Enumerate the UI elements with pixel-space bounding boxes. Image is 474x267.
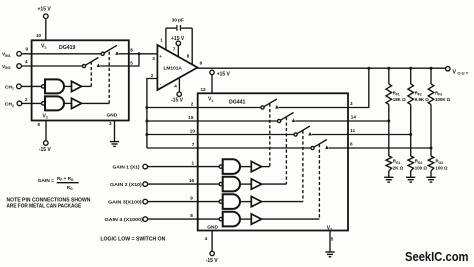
wire buffer G2 output [81,102,109,104]
node RF3 bottom [430,147,433,150]
gate G4 DG441 [219,177,261,192]
wire DG419 pin 5 up to node [129,54,139,66]
wire DG419 pin 8 to op-amp pin 3 [129,53,158,55]
svg-text:18K Ω: 18K Ω [393,97,406,102]
svg-text:5: 5 [331,237,334,242]
wire op-amp output pin 6 [198,67,446,69]
svg-text:GND: GND [207,224,218,230]
svg-text:DG441: DG441 [229,99,246,105]
wire bus row2 to switch S4 [147,120,278,122]
terminal GAIN 3 (X100) [108,195,193,205]
note text [7,197,91,209]
node junction pin8/pin5 [138,52,141,55]
power +15V supply DG419 pin 10 [36,7,51,41]
node feedback bus junction row1 [145,106,148,109]
wire dashed control S6 [318,144,320,219]
wire GAIN3 to gate G5 [148,201,220,203]
svg-text:1: 1 [160,38,163,43]
node output bus / RF3 [430,67,433,70]
wire bus row1 to switch S3 [147,107,261,109]
switch S2 in DG419 [82,58,128,68]
terminal GAIN 1 (X1) [113,160,195,170]
node output bus / RF1 [387,67,390,70]
wire op-amp pin 2 feedback [147,79,158,149]
svg-text:SeekIC.com: SeekIC.com [405,249,469,264]
node feedback bus junction row3 [145,133,148,136]
resistor RF2 9.9K [408,68,429,134]
terminal GAIN 4 (X1000) [105,213,194,223]
switch S4 in DG441 [278,113,349,123]
terminal VIN2 [2,59,28,70]
svg-text:+15 V: +15 V [217,71,231,77]
node feedback bus junction row2 [145,120,148,123]
svg-text:4: 4 [205,236,208,241]
svg-text:4: 4 [25,59,28,64]
gate G1 DG419 (inverting driver) [42,79,82,93]
svg-text:GND: GND [107,113,118,119]
resistor RF1 18K [386,68,406,121]
svg-text:LM101A: LM101A [164,66,183,72]
svg-text:30 pF: 30 pF [172,18,184,23]
wire dashed control S5 [302,131,304,202]
ground RG2 [406,177,415,182]
wire op-amp pin 8 to capacitor [191,28,193,65]
svg-text:3: 3 [350,101,353,106]
svg-text:15: 15 [188,115,194,120]
wire buffer G1 output [81,85,91,87]
ground RG1 [384,177,393,182]
svg-text:2: 2 [151,73,154,78]
svg-text:8: 8 [130,48,133,53]
svg-text:1: 1 [192,160,195,165]
wire CH2 to gate G2 [22,102,42,104]
wire DG441 pin 3 to output bus [348,68,369,107]
svg-text:-15 V: -15 V [39,147,52,153]
svg-text:3: 3 [109,121,112,126]
wire GAIN4 to gate G6 [148,218,220,220]
wire buffer G3 output to control S3 [261,166,270,168]
gate G6 DG441 [219,212,261,227]
svg-text:100K Ω: 100K Ω [435,97,451,102]
ground DG419 pin 3 [109,121,119,147]
svg-text:6: 6 [200,61,203,66]
gain formula text [38,176,79,191]
node output bus / pin3 [367,67,370,70]
svg-text:3: 3 [152,56,155,61]
capacitor C1 30pF [166,18,192,31]
svg-text:GAIN 2 (X10): GAIN 2 (X10) [110,182,142,188]
gate G3 DG441 [219,159,261,174]
switch S1 in DG419 [101,45,129,55]
switch S5 in DG441 [294,126,348,136]
wire DG441 pin 6 to RF3 [348,147,431,149]
switch S6 in DG441 [311,140,348,150]
svg-text:NOTE PIN CONNECTIONS SHOWN: NOTE PIN CONNECTIONS SHOWN [7,197,91,203]
node RF2 bottom [409,133,412,136]
svg-text:2K Ω: 2K Ω [393,165,404,170]
wire dashed control S3 [269,104,271,167]
IC U3 DG441 box [198,93,348,230]
wire DG441 pin 14 to RF1 [348,120,389,122]
wire dashed control S4 [285,117,287,184]
svg-text:9: 9 [190,195,193,200]
power -15V supply op-amp pin 4 [171,78,184,104]
power +15V supply op-amp pin 7 [171,36,185,57]
svg-text:-15 V: -15 V [171,98,184,104]
IC U1 DG419 box [32,40,129,120]
power +15V supply DG441 pin 13 [201,70,231,93]
svg-text:VOUT: VOUT [452,70,469,76]
wire GAIN1 to gate G3 [148,166,220,168]
gate G5 DG441 [219,194,261,209]
svg-text:GAIN 3(X100): GAIN 3(X100) [108,200,142,206]
wire buffer G5 output to control S5 [261,201,303,203]
svg-text:100 Ω: 100 Ω [436,165,449,170]
resistor RG3 100 [428,148,448,177]
svg-text:16: 16 [189,178,195,183]
gate G2 DG419 (inverting driver) [42,96,82,110]
terminal GAIN 2 (X10) [110,178,195,188]
switch S3 in DG441 [261,99,348,109]
svg-text:6: 6 [38,122,41,127]
ground RG3 [426,177,435,182]
svg-text:9: 9 [26,47,29,52]
svg-text:GAIN =: GAIN = [38,178,55,184]
svg-text:7: 7 [192,142,195,147]
svg-text:GAIN 1 (X1): GAIN 1 (X1) [113,165,140,171]
wire dashed control S1 [108,50,110,103]
svg-text:+: + [159,54,162,59]
svg-text:2: 2 [191,101,194,106]
node output bus / RF2 [409,67,412,70]
wire op-amp pin 1 to capacitor [165,28,167,50]
ground DG441 pin 5 [325,231,334,257]
svg-text:-15 V: -15 V [206,258,219,264]
wire dashed control S2 [90,62,92,86]
wire DG441 pin 11 to RF2 [348,134,411,136]
resistor RG1 2K [386,121,404,177]
svg-text:13: 13 [201,87,207,92]
wire buffer G4 output to control S4 [261,183,286,185]
terminal CH2 [5,97,28,108]
svg-text:8: 8 [187,54,190,59]
svg-text:4: 4 [174,84,177,89]
op-amp U2 LM101A [157,45,197,90]
wire bus row3 to switch S5 [147,134,294,136]
svg-text:2: 2 [25,97,28,102]
wire bus row4 to switch S6 [147,147,311,149]
wire VIN1 to switch S1 [21,53,101,55]
svg-text:+15 V: +15 V [38,7,52,13]
svg-text:7: 7 [173,47,176,52]
power -15V supply DG419 pin 6 [38,121,52,153]
svg-text:5: 5 [130,61,133,66]
wire buffer G6 output to control S6 [261,218,319,220]
svg-text:8: 8 [190,213,193,218]
svg-text:10: 10 [190,128,196,133]
svg-text:GAIN 4 (X1000): GAIN 4 (X1000) [105,217,144,223]
svg-text:14: 14 [351,115,357,120]
svg-text:9.9K Ω: 9.9K Ω [415,97,429,102]
terminal CH1 [5,84,21,90]
terminal VOUT [446,67,470,76]
svg-text:DG419: DG419 [59,45,76,51]
svg-text:10: 10 [36,33,42,38]
wire GAIN2 to gate G4 [148,183,220,185]
svg-text:ARE FOR METAL CAN PACKAGE: ARE FOR METAL CAN PACKAGE [7,204,82,210]
svg-text:100 Ω: 100 Ω [415,165,428,170]
power -15V supply DG441 pin 4 [205,231,219,265]
wire VIN2 to switch S2 [21,65,82,67]
node RF1 bottom [387,120,390,123]
wire CH1 to gate G1 [21,85,41,87]
svg-text:11: 11 [350,128,355,133]
resistor RG2 100 [408,135,427,178]
svg-text:LOGIC LOW = SWITCH ON: LOGIC LOW = SWITCH ON [100,236,165,242]
resistor RF3 100K [428,68,451,148]
terminal VIN1 [2,47,29,58]
svg-text:6: 6 [350,142,353,147]
